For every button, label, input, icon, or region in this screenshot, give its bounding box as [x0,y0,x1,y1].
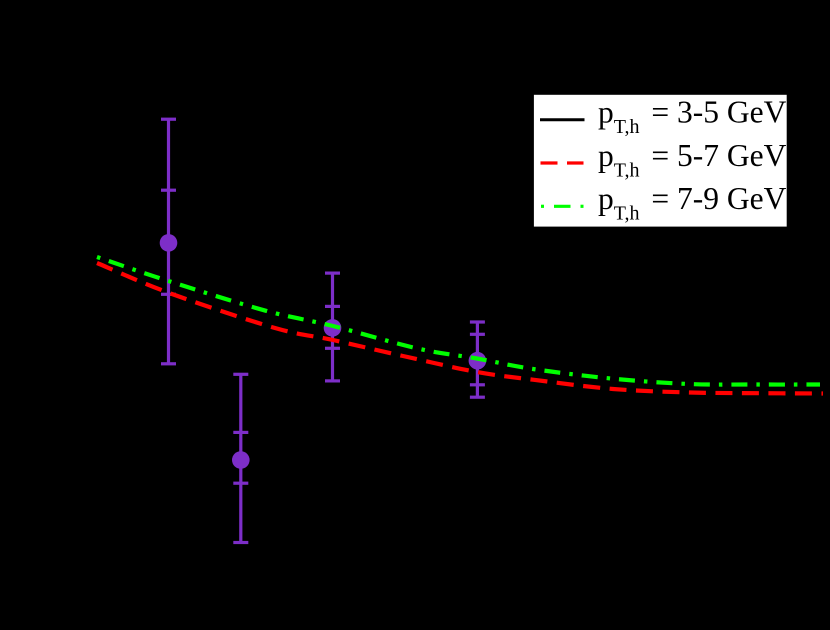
data point 1 marker [160,234,178,252]
data point 3 error bar [470,322,485,397]
data point 1 error bar [161,119,176,364]
legend sample 5-7 GeV (red dash) [541,161,584,164]
data point 2 marker [324,319,342,337]
legend sample 3-5 GeV (black solid) [540,118,585,121]
red dashed curve p_T,h = 5-7 GeV [97,263,823,394]
green dash-dot curve p_T,h = 7-9 GeV [97,257,820,385]
legend sample 7-9 GeV (green dashdot) [541,205,584,208]
data point 4 marker [232,451,250,469]
data point 2 error bar [325,273,340,381]
legend box [532,93,788,228]
data point 3 marker [469,352,487,370]
data point 4 error bar [233,374,248,542]
